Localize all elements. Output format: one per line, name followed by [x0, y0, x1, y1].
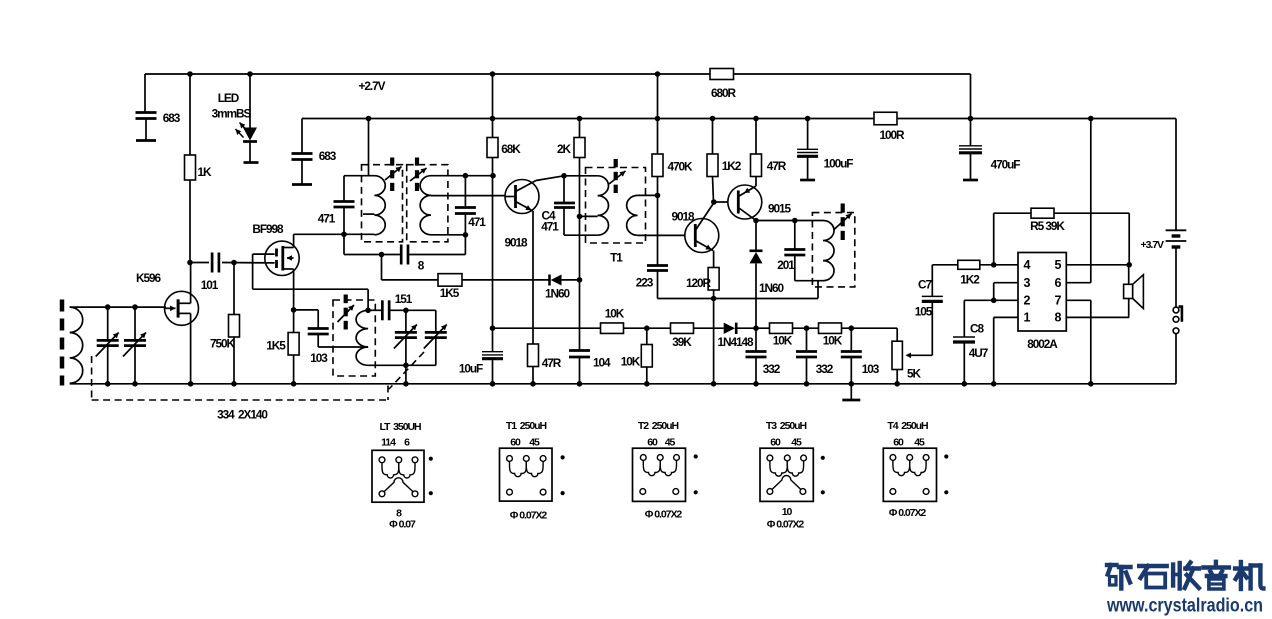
svg-text:1K2: 1K2: [722, 159, 742, 173]
svg-text:Φ 0.07X2: Φ 0.07X2: [645, 509, 683, 521]
svg-text:68K: 68K: [501, 142, 521, 156]
svg-text:1K5: 1K5: [266, 339, 286, 353]
svg-text:www.crystalradio.cn: www.crystalradio.cn: [1106, 596, 1263, 617]
svg-text:100uF: 100uF: [824, 157, 854, 171]
svg-text:471: 471: [468, 215, 486, 229]
svg-text:683: 683: [163, 111, 181, 125]
svg-text:39K: 39K: [672, 335, 692, 349]
svg-text:47R: 47R: [542, 356, 562, 370]
svg-text:1K: 1K: [198, 165, 213, 179]
svg-text:10: 10: [782, 506, 793, 518]
svg-text:2K: 2K: [557, 142, 572, 156]
svg-text:3mmBS: 3mmBS: [212, 107, 252, 121]
svg-text:R5 39K: R5 39K: [1030, 219, 1065, 233]
svg-text:750K: 750K: [210, 337, 236, 351]
svg-text:9018: 9018: [671, 210, 695, 224]
svg-text:Φ 0.07X2: Φ 0.07X2: [889, 507, 927, 519]
svg-text:101: 101: [201, 278, 219, 292]
svg-text:1N4148: 1N4148: [717, 335, 754, 349]
svg-text:K596: K596: [136, 271, 161, 285]
svg-text:T4 250uH: T4 250uH: [887, 420, 928, 432]
svg-text:201: 201: [777, 258, 795, 272]
svg-text:45: 45: [665, 437, 676, 449]
svg-text:T1: T1: [610, 251, 623, 265]
svg-text:Φ 0.07X2: Φ 0.07X2: [767, 519, 805, 531]
svg-text:10K: 10K: [823, 334, 843, 348]
svg-text:1K2: 1K2: [960, 273, 980, 287]
svg-text:120R: 120R: [686, 276, 712, 290]
svg-text:BF998: BF998: [252, 222, 284, 236]
svg-text:223: 223: [636, 276, 654, 290]
svg-text:103: 103: [862, 362, 880, 376]
svg-text:100R: 100R: [879, 128, 905, 142]
svg-text:+2.7V: +2.7V: [359, 79, 386, 93]
svg-text:104: 104: [593, 356, 611, 370]
svg-text:47R: 47R: [767, 159, 787, 173]
svg-text:471: 471: [541, 220, 559, 234]
svg-text:C7: C7: [918, 278, 932, 292]
svg-text:LED: LED: [218, 91, 240, 105]
svg-text:1K5: 1K5: [440, 286, 460, 300]
svg-text:5K: 5K: [907, 367, 922, 381]
svg-text:45: 45: [914, 437, 925, 449]
svg-text:332: 332: [816, 362, 834, 376]
svg-text:680R: 680R: [711, 86, 737, 100]
svg-text:114: 114: [381, 437, 396, 449]
svg-text:T3 250uH: T3 250uH: [766, 420, 807, 432]
svg-text:332: 332: [763, 362, 781, 376]
svg-text:103: 103: [310, 351, 328, 365]
svg-text:9018: 9018: [504, 236, 528, 250]
svg-text:60: 60: [893, 437, 904, 449]
svg-text:10K: 10K: [621, 355, 641, 369]
svg-text:+3.7V: +3.7V: [1141, 239, 1165, 251]
svg-text:8002A: 8002A: [1027, 337, 1058, 351]
svg-text:45: 45: [529, 437, 540, 449]
svg-text:60: 60: [510, 437, 521, 449]
svg-text:LT 350UH: LT 350UH: [379, 421, 421, 433]
svg-text:C8: C8: [970, 322, 984, 336]
svg-text:105: 105: [915, 305, 933, 319]
svg-text:4U7: 4U7: [969, 346, 989, 360]
svg-text:10uF: 10uF: [459, 362, 483, 376]
svg-text:60: 60: [647, 437, 658, 449]
svg-text:334 2X140: 334 2X140: [217, 408, 268, 422]
svg-text:151: 151: [395, 292, 413, 306]
svg-text:60: 60: [770, 437, 781, 449]
svg-text:470K: 470K: [667, 160, 693, 174]
svg-text:Φ 0.07: Φ 0.07: [389, 519, 416, 531]
svg-text:1N60: 1N60: [759, 281, 784, 295]
svg-text:683: 683: [319, 149, 337, 163]
svg-text:470uF: 470uF: [991, 158, 1021, 172]
svg-text:9015: 9015: [768, 202, 792, 216]
svg-text:T1 250uH: T1 250uH: [506, 420, 547, 432]
svg-text:T2 250uH: T2 250uH: [638, 420, 679, 432]
svg-text:45: 45: [791, 437, 802, 449]
svg-text:Φ 0.07X2: Φ 0.07X2: [510, 510, 548, 522]
svg-text:471: 471: [318, 212, 336, 226]
svg-text:10K: 10K: [605, 307, 625, 321]
svg-text:10K: 10K: [773, 334, 793, 348]
svg-text:1N60: 1N60: [545, 287, 570, 301]
